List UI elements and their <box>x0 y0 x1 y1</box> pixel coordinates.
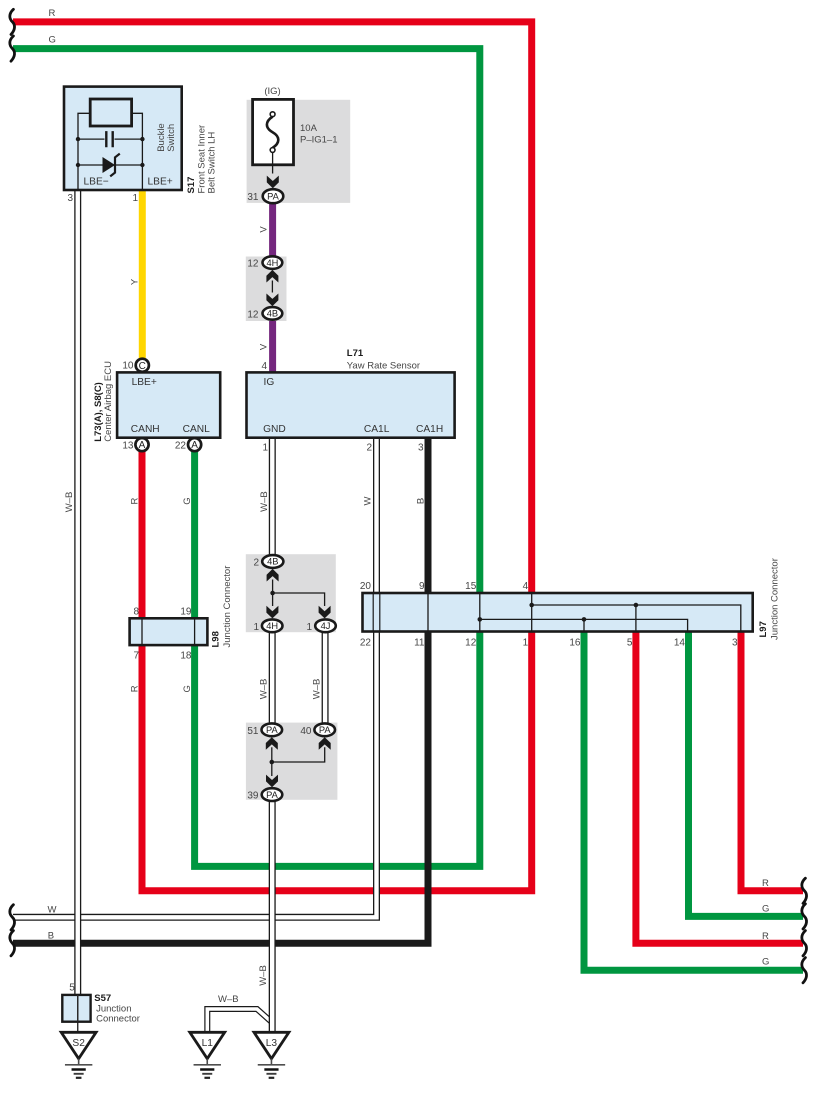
arrow up into 40 PA <box>319 737 331 750</box>
wire junction down to 39 PA <box>271 762 273 776</box>
svg-text:CA1L: CA1L <box>364 424 390 435</box>
connector circle A pin 22 <box>188 438 201 451</box>
svg-text:2: 2 <box>253 558 259 569</box>
svg-text:Connector: Connector <box>96 1014 140 1025</box>
svg-text:4J: 4J <box>321 621 331 631</box>
wire break squiggle G right 2 <box>802 904 807 929</box>
wire thin through L98 red <box>141 618 143 645</box>
wire G from L97 pin 14 to right edge <box>689 632 804 917</box>
junction dot PA block <box>270 760 275 765</box>
svg-text:L1: L1 <box>202 1038 214 1049</box>
svg-text:R: R <box>130 685 141 692</box>
svg-text:4B: 4B <box>267 309 278 319</box>
connector 1 4H <box>262 619 283 632</box>
svg-text:3: 3 <box>732 638 738 649</box>
svg-text:5: 5 <box>69 982 75 993</box>
svg-text:GND: GND <box>263 424 286 435</box>
svg-text:16: 16 <box>569 638 581 649</box>
connector block 12-4H / 12-4B gray background <box>246 257 287 322</box>
wire break squiggle G right 4 <box>802 958 807 983</box>
svg-text:V: V <box>259 226 270 233</box>
svg-text:Center Airbag ECU: Center Airbag ECU <box>103 361 114 442</box>
svg-text:PA: PA <box>266 725 279 735</box>
svg-text:W: W <box>363 496 374 505</box>
arrow up into 51 PA <box>266 737 278 750</box>
svg-text:W–B: W–B <box>64 492 75 513</box>
svg-text:Switch: Switch <box>166 124 177 152</box>
svg-text:18: 18 <box>180 651 192 662</box>
svg-text:LBE+: LBE+ <box>132 377 157 388</box>
svg-text:40: 40 <box>300 726 312 737</box>
junction dot <box>270 591 275 596</box>
svg-text:20: 20 <box>360 581 372 592</box>
wire junction to 4H <box>272 593 274 606</box>
wire thin through L97 W double <box>373 593 380 632</box>
svg-text:10A: 10A <box>300 123 318 134</box>
svg-text:B: B <box>416 498 427 504</box>
svg-text:31: 31 <box>247 192 259 203</box>
wire G from L97 pin 16 to right edge <box>584 632 803 971</box>
junction connector L97 box <box>363 593 753 632</box>
arrow up into 4B <box>267 569 279 582</box>
connector 12 4B <box>263 307 283 320</box>
svg-text:5: 5 <box>627 638 633 649</box>
wire CANL green from ECU pin 22 to L98 <box>191 450 198 618</box>
arrow down into 4H <box>266 606 278 619</box>
svg-text:LBE+: LBE+ <box>148 177 173 188</box>
svg-text:R: R <box>762 931 769 942</box>
junction dot G pin12 <box>478 617 483 622</box>
wire internal G to pin 16 <box>583 619 585 631</box>
svg-text:9: 9 <box>419 581 425 592</box>
svg-text:LBE−: LBE− <box>84 177 109 188</box>
svg-text:15: 15 <box>465 581 477 592</box>
svg-text:Yaw Rate Sensor: Yaw Rate Sensor <box>347 361 420 372</box>
wire W-B from 39 PA down to ground L3 <box>269 801 276 1032</box>
wire G top horizontal and vertical to L97 pin 15 <box>13 49 480 593</box>
wire R from L97 pin 3 to right edge <box>741 632 803 891</box>
svg-text:1: 1 <box>262 443 268 454</box>
svg-text:PA: PA <box>319 725 332 735</box>
junction connector S57 box <box>62 995 90 1022</box>
svg-text:3: 3 <box>67 193 73 204</box>
wire junction to 4J <box>273 593 325 606</box>
svg-text:W–B: W–B <box>218 994 239 1005</box>
svg-text:22: 22 <box>360 638 372 649</box>
svg-text:P–IG1–1: P–IG1–1 <box>300 135 338 146</box>
arrow up into 4H <box>266 270 278 283</box>
buckle switch S17 box <box>64 87 182 190</box>
wire break squiggle R top left <box>10 9 15 34</box>
svg-text:4: 4 <box>523 581 529 592</box>
svg-text:G: G <box>762 957 769 968</box>
arrow down into 4B <box>266 294 278 307</box>
svg-text:7: 7 <box>133 651 139 662</box>
junction dot R pin1 <box>529 603 534 608</box>
svg-text:1: 1 <box>306 622 312 633</box>
ground L3 <box>254 1032 289 1078</box>
svg-text:14: 14 <box>674 638 686 649</box>
junction dot R pin5 <box>634 603 639 608</box>
connector circle A pin 13 <box>135 438 148 451</box>
svg-text:19: 19 <box>180 606 192 617</box>
svg-text:Junction Connector: Junction Connector <box>770 558 781 640</box>
arrow down into 39 PA <box>266 775 278 788</box>
diode zener in S17 <box>78 164 142 166</box>
svg-text:V: V <box>259 343 270 350</box>
switch body rectangle <box>90 99 131 126</box>
ground S2 <box>61 1032 96 1078</box>
junction dots S17 <box>76 137 80 141</box>
svg-text:22: 22 <box>175 440 187 451</box>
wire W-B from 4H to 51 PA <box>269 632 276 723</box>
svg-text:G: G <box>182 685 193 692</box>
svg-text:(IG): (IG) <box>264 86 280 97</box>
svg-text:S57: S57 <box>94 993 111 1004</box>
yaw rate sensor L71 box <box>247 372 455 437</box>
arrow down into 4J <box>319 606 331 619</box>
wire 4B to junction <box>272 580 274 594</box>
svg-text:S2: S2 <box>72 1038 85 1049</box>
connector 40 PA <box>314 723 335 736</box>
wire V violet from fuse PA to 12-4H <box>269 203 276 256</box>
wire break squiggle G top left <box>10 36 15 61</box>
wire R top horizontal and vertical to L97 pin 4 <box>13 22 532 593</box>
wire CANL green from L98 down, right at y=866.4, up to L97 pin 12 <box>195 632 480 867</box>
svg-text:1: 1 <box>132 193 138 204</box>
svg-text:1: 1 <box>523 638 529 649</box>
svg-text:2: 2 <box>366 443 372 454</box>
svg-text:S17: S17 <box>186 177 197 194</box>
svg-text:L98: L98 <box>211 631 222 647</box>
wire break squiggle R right 3 <box>802 931 807 956</box>
svg-text:B: B <box>48 931 54 942</box>
wire 51 PA to junction <box>271 747 273 762</box>
svg-text:A: A <box>139 440 146 451</box>
svg-text:51: 51 <box>247 726 259 737</box>
svg-text:39: 39 <box>247 791 259 802</box>
svg-text:12: 12 <box>247 309 259 320</box>
wire Y yellow from S17 pin 1 to ECU pin 10 <box>139 190 146 359</box>
wire thin through L98 green <box>194 618 196 645</box>
connector block 4B 4H 4J gray background <box>246 554 336 632</box>
wire between 4H and 4B <box>271 281 273 293</box>
wire W-B branch to ground L1 <box>207 1009 271 1032</box>
svg-text:Y: Y <box>130 278 141 285</box>
svg-text:Belt Switch LH: Belt Switch LH <box>207 132 218 194</box>
svg-text:CA1H: CA1H <box>416 424 443 435</box>
svg-text:1: 1 <box>253 622 259 633</box>
connector 31 PA <box>263 189 284 203</box>
svg-text:G: G <box>182 497 193 504</box>
wire B black from L71 CA1H to L97 pin 9 <box>425 438 432 593</box>
svg-text:Junction Connector: Junction Connector <box>222 566 233 648</box>
wire W-B from L71 GND to 4B <box>269 438 276 555</box>
svg-text:CANH: CANH <box>131 424 160 435</box>
svg-text:12: 12 <box>465 638 477 649</box>
svg-text:3: 3 <box>418 443 424 454</box>
wire CANH red from ECU pin 13 to L98 <box>139 450 146 618</box>
wire fuse to 31 PA <box>272 152 274 173</box>
svg-text:IG: IG <box>264 377 275 388</box>
wire switch stubs <box>78 113 142 190</box>
connector circle C pin 10 <box>136 359 149 372</box>
connector 2 4B <box>262 555 283 568</box>
svg-text:13: 13 <box>122 440 134 451</box>
capacitor in S17 <box>78 138 142 140</box>
wire break squiggle R right 1 <box>802 878 807 903</box>
connector 1 4J <box>315 619 336 632</box>
wire break squiggle B bottom left <box>10 931 15 956</box>
svg-text:W–B: W–B <box>259 491 270 512</box>
wire W-B from 4J to 40 PA <box>322 632 329 723</box>
svg-text:G: G <box>49 35 56 46</box>
svg-text:C: C <box>139 361 146 372</box>
wire thin through L97 R <box>531 593 533 632</box>
svg-text:W–B: W–B <box>259 679 270 700</box>
connector 51 PA <box>262 723 283 736</box>
svg-text:8: 8 <box>133 606 139 617</box>
wire break squiggle W bottom left <box>10 905 15 930</box>
wire R from L97 pin 5 to right edge <box>636 632 803 944</box>
center airbag ECU box <box>117 372 220 437</box>
wire junction to 40 PA <box>272 747 325 762</box>
wire thin through L97 G <box>479 593 481 632</box>
connector 39 PA <box>262 788 283 801</box>
wire W white from L71 CA1L to L97 pin 20 <box>373 438 380 593</box>
wire V violet from 12-4B to L71 pin 4 <box>269 320 276 373</box>
arrow into 31 PA <box>267 176 279 189</box>
svg-text:L73(A), S8(C): L73(A), S8(C) <box>93 382 104 442</box>
svg-text:4H: 4H <box>266 621 278 631</box>
connector 12 4H <box>263 256 283 269</box>
connector block PA gray background <box>246 723 338 800</box>
wire internal R to pin 5 <box>635 605 637 632</box>
wire thin through S57 <box>77 995 79 1022</box>
svg-text:L3: L3 <box>266 1038 278 1049</box>
svg-text:R: R <box>49 8 56 19</box>
wire internal lower G bus <box>480 619 688 631</box>
wire S57 to S2 ground <box>77 1022 79 1033</box>
svg-text:12: 12 <box>247 259 259 270</box>
svg-text:W–B: W–B <box>311 679 322 700</box>
svg-text:PA: PA <box>266 790 279 800</box>
svg-text:CANL: CANL <box>183 424 211 435</box>
fuse 10A P-IG1-1 <box>253 99 338 164</box>
wire W-B from S17 pin 3 down to S57 <box>74 190 81 995</box>
svg-text:4B: 4B <box>267 557 278 567</box>
svg-text:10: 10 <box>122 361 134 372</box>
svg-text:G: G <box>762 904 769 915</box>
junction dot G pin16 <box>582 617 587 622</box>
wire W white from L97 pin 22 down and left to edge <box>13 632 377 918</box>
svg-text:R: R <box>762 878 769 889</box>
svg-text:A: A <box>191 440 198 451</box>
svg-text:W–B: W–B <box>258 965 269 986</box>
svg-text:4H: 4H <box>266 258 278 268</box>
junction connector L98 box <box>130 618 208 645</box>
svg-text:PA: PA <box>267 191 280 201</box>
fuse block gray background <box>247 100 351 203</box>
svg-text:W: W <box>48 905 57 916</box>
ground L1 <box>190 1032 225 1078</box>
wire thin through L97 B <box>427 593 429 632</box>
svg-text:R: R <box>130 497 141 504</box>
wire internal upper R bus <box>532 605 741 632</box>
wire CANH red from L98 down, right at y=890.8, up to L97 pin 1 <box>142 632 532 891</box>
svg-text:4: 4 <box>261 361 267 372</box>
svg-text:L97: L97 <box>758 621 769 637</box>
svg-text:L71: L71 <box>347 348 364 359</box>
svg-text:11: 11 <box>414 638 425 649</box>
wire B black from L97 pin 11 down, left to edge <box>13 632 428 944</box>
